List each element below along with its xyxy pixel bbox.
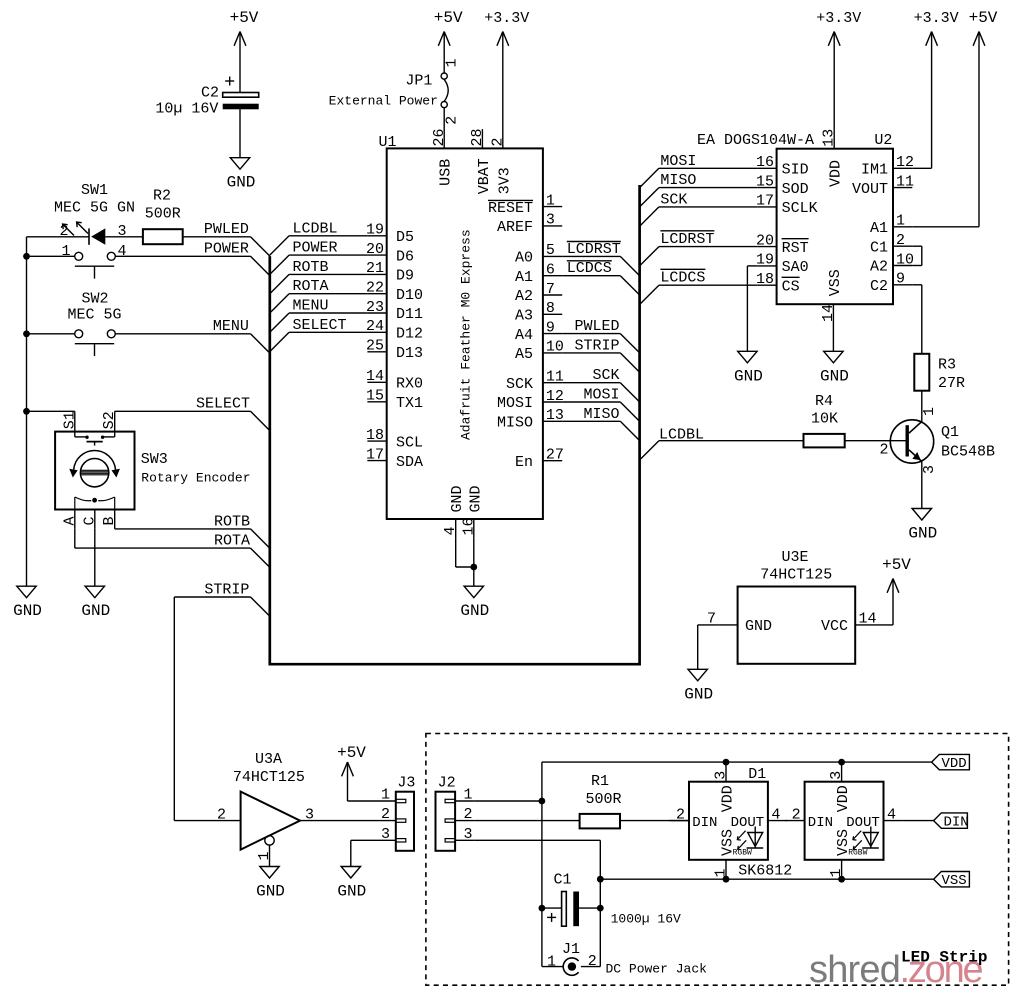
svg-text:2: 2 (588, 953, 597, 970)
svg-text:U2: U2 (874, 132, 892, 149)
svg-text:RST: RST (782, 240, 809, 257)
svg-text:12: 12 (896, 154, 914, 171)
J2 pin 1 (455, 800, 475, 802)
IC U2 EA DOGS104W-A body (777, 149, 893, 305)
svg-text:GND: GND (227, 174, 256, 192)
svg-text:6: 6 (546, 262, 555, 279)
wire J2 pin 2 to R1 (475, 820, 580, 822)
svg-text:MOSI: MOSI (497, 395, 533, 412)
svg-text:20: 20 (366, 241, 384, 258)
bus entry LCDBL right (640, 441, 659, 460)
svg-text:SK6812: SK6812 (738, 863, 792, 880)
svg-text:SCLK: SCLK (782, 200, 818, 217)
svg-text:MISO: MISO (660, 172, 696, 189)
U1 pin 7 A2 (543, 294, 562, 296)
wire R2 to bus PWLED (183, 236, 251, 238)
svg-text:13: 13 (821, 129, 838, 147)
svg-text:Rotary Encoder: Rotary Encoder (141, 471, 250, 486)
bus entry ROTA (270, 294, 289, 313)
svg-text:4: 4 (118, 243, 127, 260)
svg-text:25: 25 (366, 338, 384, 355)
global label VDD (932, 754, 970, 769)
bus entry STRIP (251, 597, 270, 616)
svg-text:14: 14 (366, 368, 384, 385)
svg-text:RESET: RESET (488, 200, 533, 217)
bus entry ROTB (251, 529, 270, 548)
capacitor C2 (223, 93, 259, 98)
wire SCK to U2 (659, 206, 757, 208)
svg-text:U1: U1 (379, 134, 397, 151)
svg-text:GND: GND (820, 367, 849, 385)
svg-text:1: 1 (62, 243, 71, 260)
U1 pin 27 En (543, 460, 562, 462)
SW3 pin B (114, 510, 116, 529)
svg-text:BC548B: BC548B (941, 443, 995, 460)
junction C1 right (597, 905, 604, 912)
svg-text:A4: A4 (515, 327, 533, 344)
bus entry MOSI right (640, 168, 659, 187)
svg-text:GND: GND (81, 602, 110, 620)
U1 pin 25 D13 (367, 351, 386, 353)
svg-text:VOUT: VOUT (852, 181, 888, 198)
power flag +5V (U3E) (892, 579, 894, 625)
wire rail to LED SW1 (27, 236, 90, 238)
svg-text:GND: GND (684, 685, 713, 703)
svg-text:IM1: IM1 (861, 162, 888, 179)
bus entry SCK right (640, 207, 659, 226)
global label DIN (934, 813, 968, 828)
svg-text:D10: D10 (396, 287, 423, 304)
power flag +3.3V (U1 3V3) (502, 32, 504, 149)
svg-text:17: 17 (756, 193, 774, 210)
wire J3 pin 3 to ground (351, 839, 377, 841)
bus entry STRIP (620, 353, 639, 372)
svg-text:TX1: TX1 (396, 395, 423, 412)
bus entry ROTA (251, 548, 270, 567)
U1 pin 17 SDA (367, 460, 386, 462)
SW1 switch contacts (27, 255, 75, 257)
U2 CS overline (782, 276, 800, 278)
bus entry SELECT (270, 332, 289, 351)
svg-text:74HCT125: 74HCT125 (233, 769, 305, 786)
U3A pin 3 output wire to J3 (300, 820, 377, 822)
svg-text:A3: A3 (515, 308, 533, 325)
U1 pin 4 GND (455, 519, 457, 538)
svg-text:A2: A2 (515, 288, 533, 305)
wire SW1 to bus POWER (115, 255, 250, 257)
svg-text:3: 3 (713, 771, 730, 780)
svg-text:U3E: U3E (781, 549, 808, 566)
wire U2 VSS to ground (832, 324, 834, 352)
U1 pin 16 GND (473, 519, 475, 538)
svg-text:DIN: DIN (692, 815, 717, 831)
svg-text:+3.3V: +3.3V (816, 10, 861, 27)
svg-text:2: 2 (792, 807, 801, 824)
bus entry MENU (270, 313, 289, 332)
bus entry MOSI (620, 402, 639, 421)
wire U3E GND (698, 624, 719, 626)
svg-text:VSS: VSS (942, 873, 967, 889)
svg-text:MISO: MISO (583, 406, 619, 423)
ground (U1) (464, 586, 483, 598)
U1 RESET overline (488, 199, 533, 201)
wire rail to SW3 S1 (27, 410, 75, 412)
svg-text:19: 19 (366, 222, 384, 239)
svg-text:2: 2 (443, 116, 460, 125)
svg-text:MEC 5G: MEC 5G (67, 307, 121, 324)
SW3 knob circle (80, 459, 108, 487)
svg-text:POWER: POWER (204, 241, 249, 258)
svg-text:ROTB: ROTB (214, 513, 250, 530)
D1 pin 4 DOUT (768, 820, 787, 822)
svg-text:2: 2 (464, 806, 473, 823)
connector J1 DC power jack (541, 908, 543, 967)
svg-text:20: 20 (756, 232, 774, 249)
svg-text:R2: R2 (153, 188, 171, 205)
junction SW1 (23, 253, 30, 260)
svg-text:4: 4 (442, 526, 459, 535)
D1 pin 3 VDD (725, 762, 727, 782)
svg-text:DOUT: DOUT (846, 815, 880, 831)
ground (C2) (230, 158, 249, 170)
SW3 pin C (94, 510, 96, 529)
wire LCDCS to U2 CS (659, 284, 757, 286)
D2 LED symbol (863, 833, 878, 847)
wire J2 pin 1 down to C1 (541, 801, 543, 908)
svg-text:+3.3V: +3.3V (914, 10, 959, 27)
wire net ROTA to U1 pin 22 (289, 293, 367, 295)
svg-text:SCK: SCK (506, 376, 533, 393)
svg-text:GND: GND (467, 485, 484, 512)
wire PWLED to U1 pin 9 (562, 333, 620, 335)
wire net POWER to U1 pin 20 (289, 254, 367, 256)
wire net ROTB to U1 pin 21 (289, 273, 367, 275)
svg-text:7: 7 (546, 281, 555, 298)
junction VDD (539, 798, 546, 805)
svg-text:Q1: Q1 (941, 424, 959, 441)
svg-text:U3A: U3A (255, 751, 282, 768)
junction SW3 (23, 408, 30, 415)
J3 pin 1 (377, 800, 396, 802)
svg-text:SCL: SCL (396, 434, 423, 451)
svg-text:1: 1 (921, 407, 938, 416)
svg-text:+3.3V: +3.3V (484, 10, 529, 27)
wire U1 grounds (455, 538, 457, 567)
svg-text:EA DOGS104W-A: EA DOGS104W-A (697, 132, 814, 149)
svg-text:LCDCS: LCDCS (660, 270, 705, 287)
svg-text:10: 10 (546, 339, 564, 356)
wire R1 to D1 DIN (620, 820, 689, 822)
svg-text:MENU: MENU (213, 318, 249, 335)
svg-text:3: 3 (464, 826, 473, 843)
svg-text:C2: C2 (201, 85, 219, 102)
junction D2 VSS (838, 876, 845, 883)
svg-text:12: 12 (546, 388, 564, 405)
svg-text:AREF: AREF (497, 219, 533, 236)
wire SW3 C to ground (94, 529, 96, 586)
power flag +5V (JP1) (443, 32, 445, 74)
wire STRIP down to U3A (173, 597, 175, 821)
ground (left rail) (17, 586, 36, 598)
svg-text:GND: GND (734, 367, 763, 385)
svg-text:1: 1 (443, 58, 460, 67)
svg-text:3: 3 (546, 212, 555, 229)
power flag +5V (J3) (347, 762, 349, 801)
svg-text:JP1: JP1 (405, 73, 432, 90)
svg-text:J1: J1 (562, 941, 580, 958)
wire LCDRST to U2 RST (659, 246, 757, 248)
svg-text:VSS: VSS (827, 269, 844, 296)
svg-text:22: 22 (366, 280, 384, 297)
svg-text:18: 18 (366, 427, 384, 444)
bus entry MISO right (640, 188, 659, 207)
wire SW3 A to bus ROTA (74, 529, 76, 548)
svg-text:1: 1 (547, 954, 556, 971)
U1 top pin 28 VBAT (481, 129, 483, 148)
wire LED to R2 (105, 236, 143, 238)
D2 pin 4 DOUT (884, 820, 903, 822)
U1 pin 15 TX1 (367, 401, 386, 403)
svg-text:R4: R4 (815, 393, 833, 410)
bus entry POWER (270, 255, 289, 274)
svg-text:SCK: SCK (660, 191, 687, 208)
svg-text:3: 3 (828, 771, 845, 780)
svg-text:74HCT125: 74HCT125 (760, 567, 832, 584)
svg-text:16: 16 (460, 517, 477, 535)
SW3 wiper arcs (74, 497, 76, 510)
svg-text:D1: D1 (748, 766, 766, 783)
svg-text:27R: 27R (938, 375, 965, 392)
ground (U2 VSS) (824, 351, 843, 363)
svg-text:D12: D12 (396, 326, 423, 343)
junction SW2 (23, 330, 30, 337)
svg-text:R1: R1 (591, 773, 609, 790)
svg-text:ROTA: ROTA (214, 533, 250, 550)
wire R3 to Q1 collector top (921, 391, 923, 422)
svg-text:SW1: SW1 (81, 182, 108, 199)
svg-text:17: 17 (366, 446, 384, 463)
resistor R4 (804, 434, 845, 448)
svg-text:2: 2 (217, 806, 226, 823)
svg-text:+5V: +5V (337, 744, 366, 762)
svg-text:DC Power Jack: DC Power Jack (606, 962, 708, 977)
svg-text:9: 9 (896, 271, 905, 288)
svg-text:2: 2 (896, 232, 905, 249)
LED D2 SK6812 body (805, 782, 884, 860)
D1 pin 2 DIN (670, 820, 689, 822)
resistor R2 (143, 229, 183, 244)
svg-text:GND: GND (256, 883, 285, 901)
svg-text:GND: GND (449, 485, 466, 512)
U2 pin 10 A2 (893, 265, 912, 267)
jumper JP1 (441, 73, 447, 79)
D1 pin 1 VSS (725, 860, 727, 879)
U1 pin 14 RX0 (367, 381, 386, 383)
global label VSS (934, 872, 970, 887)
svg-text:GND: GND (460, 602, 489, 620)
wire LCDRST to U1 pin 5 (562, 255, 620, 257)
wire LCDBL to R4 (659, 440, 804, 442)
rotary encoder SW3 body (55, 432, 134, 510)
ground (U3A) (260, 867, 279, 879)
U2 pin 9 C2 (893, 284, 912, 286)
wire SW2 to bus MENU (115, 333, 250, 335)
svg-text:DOUT: DOUT (731, 815, 765, 831)
capacitor C1 (542, 907, 562, 909)
U2 pin 16 SID (757, 167, 776, 169)
svg-text:4: 4 (771, 807, 780, 824)
svg-text:3: 3 (381, 826, 390, 843)
svg-text:+5V: +5V (230, 9, 259, 27)
U1 pin 9 A4 (543, 333, 562, 335)
wire U2 IM1 to +3.3V (912, 167, 931, 169)
U2 pin 18 CS (757, 284, 776, 286)
svg-text:13: 13 (546, 407, 564, 424)
svg-text:C: C (81, 516, 98, 525)
wire SW3 B to bus ROTB (114, 528, 116, 530)
svg-text:DIN: DIN (808, 815, 833, 831)
svg-text:A1: A1 (870, 220, 888, 237)
svg-text:2: 2 (60, 223, 69, 240)
svg-text:+5V: +5V (969, 9, 998, 27)
svg-text:Adafruit Feather M0 Express: Adafruit Feather M0 Express (458, 229, 473, 440)
svg-text:STRIP: STRIP (574, 337, 619, 354)
wire J2 pin 1 to VDD rail (475, 800, 542, 802)
connector J3 (396, 792, 414, 851)
svg-text:RGBW: RGBW (733, 849, 752, 858)
U3E pin 7 GND (718, 624, 737, 626)
U1 pin 10 A5 (543, 352, 562, 354)
svg-text:D11: D11 (396, 306, 423, 323)
svg-text:10K: 10K (811, 411, 838, 428)
U3A enable bubble pin 1 (265, 836, 274, 845)
svg-text:23: 23 (366, 299, 384, 316)
ground (U2 SA0) (738, 351, 757, 363)
svg-text:+5V: +5V (434, 9, 463, 27)
svg-text:18: 18 (756, 271, 774, 288)
svg-text:21: 21 (366, 260, 384, 277)
wire JP1 to U1 pin 26 (443, 108, 445, 149)
svg-text:LCDCS: LCDCS (567, 260, 612, 277)
connector J2 (436, 792, 456, 851)
svg-text:GND: GND (13, 602, 42, 620)
wire +5V to J3 pin 1 (348, 800, 377, 802)
U2 pin 13 VDD (833, 129, 835, 148)
U2 pin 2 C1 (893, 245, 912, 247)
U1 pin 24 D12 (367, 331, 386, 333)
svg-text:shred: shred (809, 949, 900, 991)
svg-text:GND: GND (908, 525, 937, 543)
svg-text:15: 15 (756, 173, 774, 190)
J2 pin 2 (455, 820, 475, 822)
U2 pin 19 SA0 (757, 265, 776, 267)
U2 pin 12 IM1 (893, 167, 912, 169)
svg-text:PWLED: PWLED (204, 221, 249, 238)
svg-text:4: 4 (887, 807, 896, 824)
svg-text:VDD: VDD (828, 160, 845, 187)
svg-text:D5: D5 (396, 229, 414, 246)
bus entry MENU (251, 334, 270, 353)
IC U3E 74HCT125 power body (738, 587, 856, 664)
bus entry ROTB (270, 274, 289, 293)
svg-text:RGBW: RGBW (848, 849, 867, 858)
svg-text:16: 16 (756, 154, 774, 171)
svg-text:2: 2 (879, 441, 888, 458)
U1 pin 18 SCL (367, 440, 386, 442)
svg-text:CS: CS (782, 278, 800, 295)
resistor R3 (914, 354, 929, 391)
svg-text:MENU: MENU (293, 298, 329, 315)
svg-text:8: 8 (546, 300, 555, 317)
svg-text:A0: A0 (515, 250, 533, 267)
svg-text:STRIP: STRIP (204, 581, 249, 598)
svg-text:28: 28 (469, 128, 486, 146)
U1 pin 3 AREF (543, 225, 562, 227)
U2 pin 1 A1 (893, 226, 912, 228)
D2 pin 2 DIN (785, 820, 804, 822)
U1 pin 12 MOSI (543, 401, 562, 403)
SW3 pin S1 (74, 411, 76, 431)
power flag +3.3V (U2 IM1) (931, 32, 933, 169)
SW3 pin A (74, 510, 76, 529)
svg-text:10: 10 (896, 251, 914, 268)
junction U1 ground (470, 564, 477, 571)
wire MISO to U2 (659, 187, 757, 189)
ground (Q1) (912, 509, 931, 521)
svg-text:SID: SID (782, 162, 809, 179)
junction VSS rail (597, 876, 604, 883)
svg-text:A2: A2 (870, 259, 888, 276)
svg-text:SELECT: SELECT (293, 317, 347, 334)
wire U2 A1 to +5V (912, 226, 979, 228)
bus entry POWER (251, 256, 270, 275)
bus entry LCDBL (270, 236, 289, 255)
wire net SELECT to U1 pin 24 (289, 331, 367, 333)
svg-text:19: 19 (756, 252, 774, 269)
svg-text:SW2: SW2 (81, 291, 108, 308)
svg-text:SCK: SCK (592, 367, 619, 384)
U1 pin 6 A1 (543, 275, 562, 277)
svg-text:En: En (515, 454, 533, 471)
svg-text:RX0: RX0 (396, 376, 423, 393)
svg-text:A1: A1 (515, 269, 533, 286)
svg-text:J3: J3 (397, 774, 415, 791)
wire STRIP from bus (174, 596, 250, 598)
junction D2 VDD (838, 759, 845, 766)
wire U2 C2 to R3 (912, 284, 922, 286)
svg-text:C1: C1 (870, 239, 888, 256)
bus entry LCDRST right (640, 247, 659, 266)
svg-text:J2: J2 (438, 774, 456, 791)
wire J2 pin 3 down (475, 839, 601, 841)
svg-text:14: 14 (820, 304, 837, 322)
D2 pin 1 VSS (841, 860, 843, 879)
U2 pin 17 SCLK (757, 206, 776, 208)
svg-text:1: 1 (256, 851, 273, 860)
wire C2 to GND (239, 109, 241, 157)
svg-text:D6: D6 (396, 248, 414, 265)
U1 pin 13 MISO (543, 420, 562, 422)
svg-text:500R: 500R (585, 791, 621, 808)
wire MOSI to U2 (659, 167, 757, 169)
wire net MENU to U1 pin 23 (289, 312, 367, 314)
svg-text:2: 2 (676, 807, 685, 824)
svg-text:1: 1 (381, 787, 390, 804)
U1 pin 11 SCK (543, 382, 562, 384)
svg-text:SDA: SDA (396, 454, 423, 471)
svg-text:LCDBL: LCDBL (659, 427, 704, 444)
svg-text:MOSI: MOSI (660, 153, 696, 170)
